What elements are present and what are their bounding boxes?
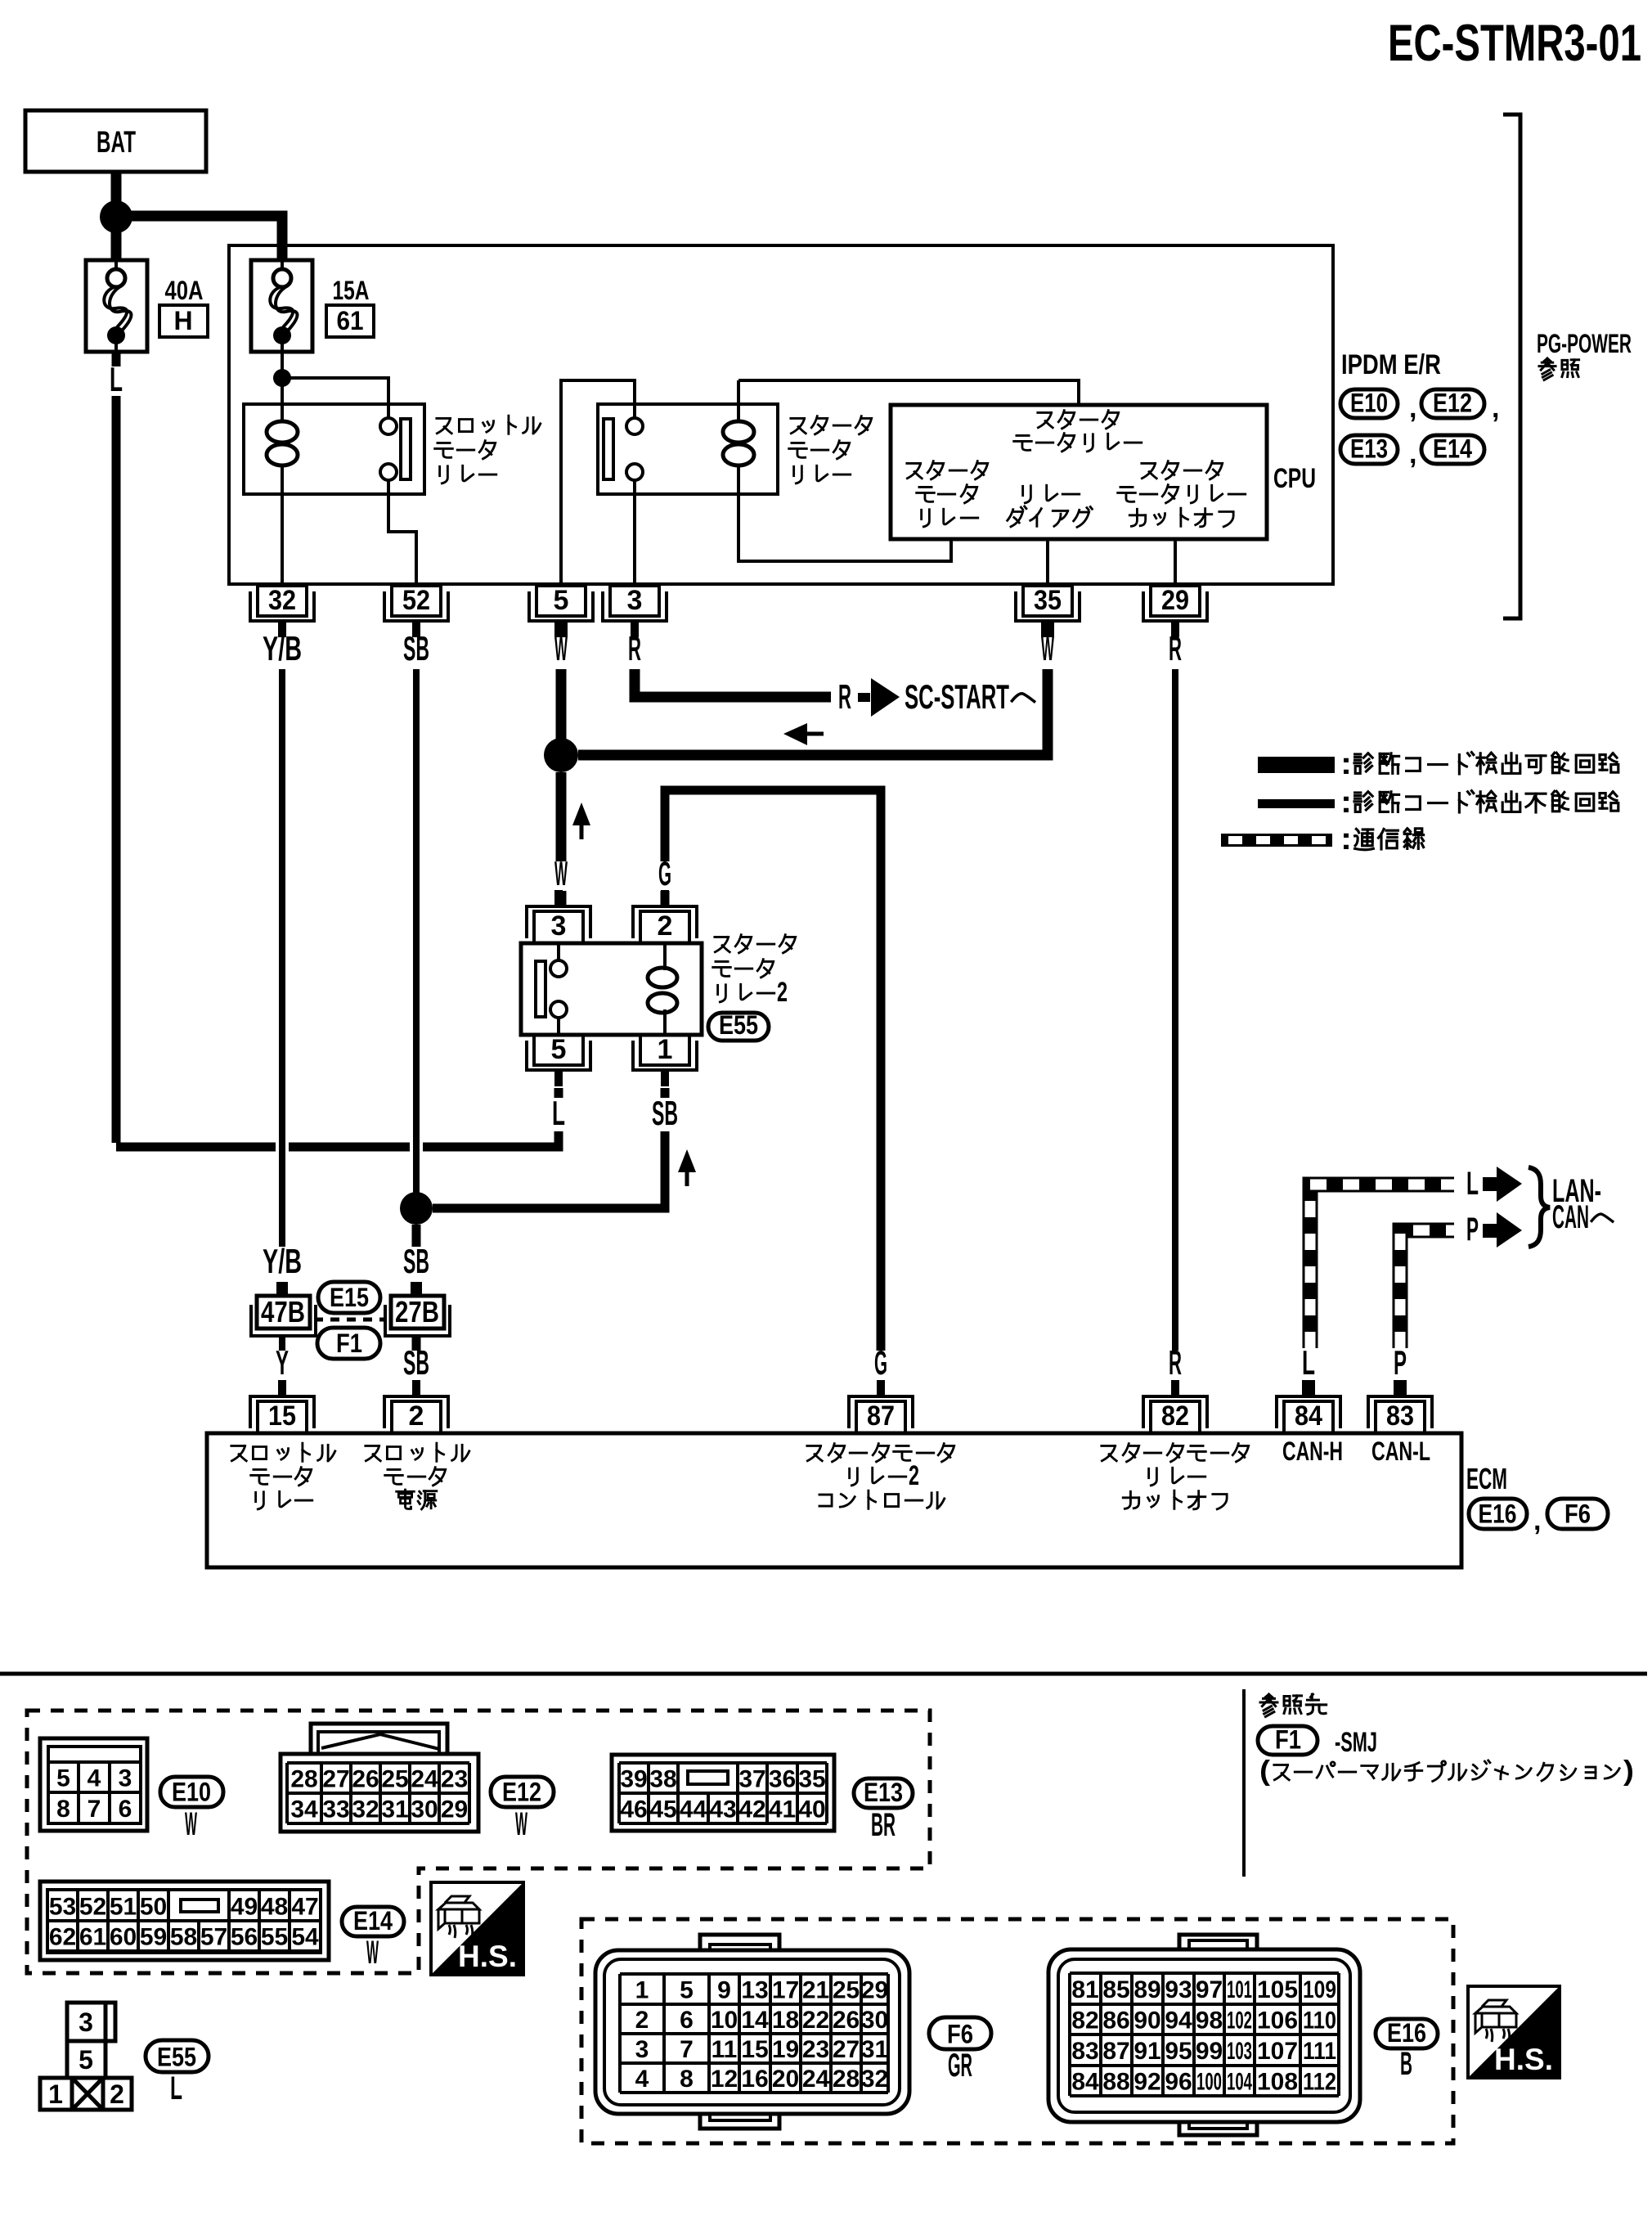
ECM label pin2 l3 — [397, 1490, 437, 1509]
separator line — [0, 1672, 1647, 1676]
svg-text:P: P — [1394, 1343, 1407, 1382]
svg-text:52: 52 — [402, 585, 430, 616]
wire E55 contact entry — [557, 943, 560, 960]
svg-text:33: 33 — [322, 1796, 349, 1823]
svg-text:8: 8 — [56, 1796, 70, 1823]
svg-text:53: 53 — [49, 1894, 76, 1921]
label P (LAN-CAN) — [1466, 1212, 1479, 1248]
legend text 2 — [1340, 785, 1618, 820]
svg-text:Y/B: Y/B — [263, 629, 302, 668]
ECM label pin2 l1 — [366, 1443, 469, 1461]
svg-text:GR: GR — [948, 2048, 972, 2084]
svg-text:Y/B: Y/B — [263, 1242, 302, 1280]
terminal 47B — [276, 1282, 288, 1297]
connector ref F1 note — [1258, 1726, 1318, 1755]
svg-text:55: 55 — [261, 1924, 288, 1951]
svg-text:21: 21 — [802, 1977, 829, 2004]
fuse 40A H box — [86, 260, 147, 352]
svg-text:44: 44 — [680, 1796, 707, 1823]
svg-text:29: 29 — [861, 1977, 888, 2004]
E14 color W — [366, 1935, 379, 1971]
wire SB below E55 pin1 a — [661, 1088, 670, 1098]
svg-text:6: 6 — [680, 2007, 694, 2034]
svg-text:W: W — [366, 1935, 379, 1971]
svg-text:32: 32 — [861, 2066, 888, 2093]
connector ref E10 — [1340, 389, 1398, 418]
ECM label pin82 l2 — [1149, 1468, 1205, 1486]
svg-text:28: 28 — [833, 2066, 860, 2093]
svg-text:,: , — [1492, 393, 1499, 424]
bracket PG-POWER — [1503, 115, 1520, 618]
pin 82 ECM — [1143, 1380, 1207, 1433]
wire E55 contact exit — [557, 1018, 560, 1033]
svg-text:42: 42 — [738, 1796, 765, 1823]
svg-text:E12: E12 — [502, 1778, 541, 1807]
svg-text:2: 2 — [658, 910, 673, 942]
junction fuse 15A output — [273, 369, 291, 387]
svg-text:34: 34 — [290, 1796, 318, 1823]
CPU label starter motor relay l1 — [1038, 411, 1119, 429]
pin 3 E55 — [527, 890, 590, 943]
svg-text:5: 5 — [551, 1034, 567, 1065]
wire L horizontal seg3 and rise to E55 pin5 — [423, 1131, 559, 1147]
svg-text:82: 82 — [1161, 1400, 1189, 1432]
ECM label pin87 l3 — [819, 1490, 945, 1508]
svg-text:4: 4 — [88, 1765, 101, 1792]
svg-text:2: 2 — [909, 1460, 919, 1491]
CPU col2 l2 — [1008, 506, 1093, 527]
E13 grid row2 — [619, 1793, 827, 1823]
svg-text::: : — [1340, 785, 1352, 820]
svg-text:111: 111 — [1303, 2038, 1336, 2065]
svg-text:109: 109 — [1303, 1976, 1336, 2003]
svg-text:F6: F6 — [947, 2020, 973, 2049]
label throttle motor relay line1 — [437, 416, 541, 434]
svg-text:,: , — [1533, 1505, 1541, 1536]
coil starter motor relay 2 — [648, 968, 677, 1013]
svg-text:62: 62 — [49, 1924, 76, 1951]
svg-text:1: 1 — [635, 1977, 649, 2004]
wire fuse 15A to relay coil — [281, 352, 284, 404]
ECM label pin15 l2 — [251, 1468, 312, 1486]
svg-text:,: , — [1409, 438, 1416, 470]
wire G E55 pin2 to ECM pin87 — [665, 790, 881, 1351]
svg-text:101: 101 — [1227, 1976, 1252, 2003]
svg-text:L: L — [170, 2070, 182, 2106]
wire label Y — [276, 1343, 289, 1382]
svg-text:38: 38 — [649, 1766, 676, 1793]
svg-text:105: 105 — [1257, 1976, 1298, 2003]
ECM label pin87 l2 — [850, 1460, 919, 1491]
svg-text:83: 83 — [1071, 2038, 1098, 2065]
wire label W (to E55) — [554, 854, 568, 892]
pin 2 ECM — [384, 1380, 448, 1433]
ECM label pin87 l1 — [807, 1444, 954, 1462]
E12 color W — [515, 1806, 527, 1842]
svg-text:99: 99 — [1196, 2038, 1223, 2065]
svg-text:H: H — [173, 306, 192, 335]
battery BAT — [25, 110, 206, 172]
svg-text:49: 49 — [231, 1894, 258, 1921]
wire junction to relay contact — [282, 378, 388, 404]
wire coil entry from CPU — [737, 380, 740, 423]
ECM label pin82 l1 — [1102, 1444, 1249, 1462]
svg-text:61: 61 — [337, 306, 364, 335]
connector F6 pinout — [595, 1935, 909, 2129]
CPU col1 l1 — [907, 461, 988, 479]
E16 color B — [1400, 2046, 1412, 2082]
svg-text:31: 31 — [381, 1796, 408, 1823]
svg-text:L: L — [1466, 1166, 1479, 1202]
svg-text:24: 24 — [411, 1766, 438, 1793]
svg-text:97: 97 — [1196, 1976, 1223, 2003]
IPDM E/R box — [229, 245, 1333, 584]
wire CAN-H checkered — [1310, 1185, 1454, 1348]
svg-text:35: 35 — [798, 1766, 825, 1793]
svg-text:W: W — [554, 854, 568, 892]
svg-text:103: 103 — [1227, 2038, 1252, 2065]
label starter motor relay line3 — [794, 465, 851, 483]
svg-text:E14: E14 — [353, 1906, 393, 1936]
label 参照 — [1539, 358, 1579, 380]
wire label L (E55 pin5) — [552, 1094, 565, 1132]
svg-text:E12: E12 — [1433, 389, 1472, 418]
H.S. mark 2 — [1468, 1986, 1560, 2078]
wire E55 coil exit — [663, 1009, 667, 1033]
svg-text:CAN-H: CAN-H — [1282, 1436, 1343, 1466]
wire SB junction to 27B — [412, 1225, 421, 1247]
svg-text::: : — [1340, 747, 1352, 781]
svg-text:60: 60 — [110, 1924, 137, 1951]
svg-text:32: 32 — [268, 585, 296, 616]
svg-text:15A: 15A — [333, 276, 370, 305]
label starter motor relay line1 — [791, 416, 872, 434]
ECM box — [207, 1433, 1461, 1567]
svg-text:L: L — [110, 360, 123, 398]
svg-text:): ) — [1623, 1756, 1634, 1787]
svg-text:96: 96 — [1165, 2069, 1192, 2096]
svg-text:2: 2 — [635, 2007, 649, 2034]
svg-text:84: 84 — [1071, 2069, 1099, 2096]
CPU col3 l1 — [1142, 461, 1223, 479]
label 参照先 — [1260, 1694, 1327, 1716]
arrow LAN-CAN P — [1483, 1224, 1497, 1238]
svg-text:46: 46 — [620, 1796, 647, 1823]
svg-text:3: 3 — [627, 585, 643, 616]
wire label L (above pin84) — [1302, 1343, 1315, 1382]
svg-text:85: 85 — [1102, 1976, 1129, 2003]
wire L horizontal seg2 — [289, 1143, 410, 1152]
connector ref E55 pill — [146, 2040, 209, 2072]
wire fuse H output stub — [112, 352, 121, 366]
svg-text:16: 16 — [741, 2066, 768, 2093]
connector ref E12 pill — [491, 1777, 554, 1807]
svg-text:CAN-L: CAN-L — [1371, 1436, 1430, 1466]
svg-text:59: 59 — [140, 1924, 167, 1951]
wire coil to CPU output — [738, 464, 951, 561]
E14 grid row2 — [47, 1921, 321, 1951]
arrow to SC-START — [858, 693, 870, 702]
svg-text:E16: E16 — [1387, 2018, 1426, 2048]
svg-text:54: 54 — [291, 1924, 319, 1951]
label LAN- — [1552, 1173, 1601, 1209]
connector ref E10 pill — [160, 1777, 223, 1807]
connector ref E15 — [318, 1282, 380, 1313]
wire R pin3 to SC-START — [635, 669, 831, 697]
svg-text:90: 90 — [1134, 2007, 1160, 2034]
svg-text:ECM: ECM — [1466, 1462, 1507, 1495]
svg-text:R: R — [1169, 1343, 1182, 1382]
svg-text:E16: E16 — [1479, 1499, 1517, 1529]
svg-text:24: 24 — [802, 2066, 830, 2093]
svg-text:1: 1 — [48, 2079, 63, 2109]
svg-text:100: 100 — [1196, 2069, 1222, 2096]
wire CPU to coil top — [738, 380, 1079, 405]
svg-text:E55: E55 — [157, 2043, 196, 2072]
svg-text:BR: BR — [871, 1807, 896, 1843]
svg-text:27: 27 — [833, 2036, 860, 2063]
svg-text:5: 5 — [554, 585, 569, 616]
wire label R (SC-START) — [838, 677, 851, 716]
svg-text:PG-POWER: PG-POWER — [1537, 329, 1632, 358]
svg-text:6: 6 — [119, 1796, 132, 1823]
svg-text:52: 52 — [79, 1894, 106, 1921]
wire coil exit — [281, 464, 284, 494]
contact starter motor relay — [604, 418, 643, 480]
wire contact to pin 52 — [388, 494, 416, 584]
svg-text:E15: E15 — [330, 1283, 369, 1312]
svg-text:25: 25 — [381, 1766, 408, 1793]
svg-text:2: 2 — [110, 2079, 124, 2109]
svg-text:11: 11 — [712, 2036, 738, 2063]
E10 color W — [185, 1806, 197, 1842]
connector E13 pinout — [612, 1755, 834, 1831]
relay throttle motor relay box — [244, 404, 424, 494]
ECM label pin82 l3 — [1123, 1490, 1227, 1509]
svg-text:B: B — [1400, 2046, 1412, 2082]
svg-text:F1: F1 — [336, 1329, 362, 1358]
svg-text:110: 110 — [1303, 2007, 1336, 2034]
relay starter motor relay box — [598, 404, 778, 494]
svg-text:17: 17 — [772, 1977, 799, 2004]
terminal 27B — [411, 1282, 422, 1297]
svg-text:EC-STMR3-01: EC-STMR3-01 — [1388, 15, 1641, 72]
svg-text:35: 35 — [1034, 585, 1062, 616]
ECM label pin2 l2 — [385, 1468, 446, 1486]
svg-text:4: 4 — [635, 2066, 649, 2093]
dashed connector split line — [314, 1318, 386, 1322]
pin 5 E55 — [527, 1034, 590, 1086]
CPU col2 l1 — [1023, 485, 1080, 503]
svg-text:51: 51 — [110, 1894, 137, 1921]
pin 83 ECM — [1368, 1380, 1432, 1433]
pin 1 E55 — [633, 1034, 697, 1086]
reference divider line — [1242, 1689, 1246, 1877]
pin 35 IPDM — [1016, 585, 1080, 637]
svg-text:82: 82 — [1071, 2007, 1098, 2034]
wire Y/B pin32 to 47B — [279, 669, 285, 1247]
dashed harness box F6/E16 — [581, 1919, 1453, 2143]
fuse label H — [159, 305, 208, 337]
svg-text:5: 5 — [680, 1977, 694, 2004]
svg-text:106: 106 — [1257, 2007, 1298, 2034]
pin 87 ECM — [849, 1380, 913, 1433]
svg-text:-SMJ: -SMJ — [1335, 1727, 1377, 1758]
wire label SB (above pin2) — [403, 1343, 429, 1382]
svg-text:30: 30 — [861, 2007, 888, 2034]
arrow up on SB wire — [678, 1149, 696, 1172]
svg-text:81: 81 — [1071, 1976, 1098, 2003]
svg-text:W: W — [185, 1806, 197, 1842]
svg-text:56: 56 — [231, 1924, 258, 1951]
wire contact to pin 3 — [633, 480, 636, 584]
wire label W (pin35) — [1041, 629, 1054, 668]
svg-text:29: 29 — [1161, 585, 1189, 616]
svg-text:107: 107 — [1257, 2038, 1298, 2065]
connector ref F6 (ECM) — [1547, 1499, 1608, 1529]
pin 15 ECM — [250, 1380, 314, 1433]
svg-text:39: 39 — [620, 1766, 647, 1793]
wire contact entry — [387, 404, 390, 418]
connector ref E14 pill — [342, 1907, 404, 1936]
CPU col1 l3 — [922, 509, 978, 527]
connector ref E13 pill — [854, 1778, 913, 1808]
svg-text:3: 3 — [119, 1765, 132, 1792]
E55 color L — [170, 2070, 182, 2106]
svg-text:E14: E14 — [1433, 434, 1472, 464]
wire Y 47B to ECM pin15 — [279, 1336, 285, 1351]
svg-text:F6: F6 — [1564, 1499, 1591, 1529]
wire label SB (above 27B) — [403, 1242, 429, 1280]
junction SB splice — [400, 1192, 433, 1225]
pin 84 ECM — [1277, 1380, 1340, 1433]
connector ref E12 — [1421, 389, 1484, 418]
svg-text:10: 10 — [711, 2007, 738, 2034]
contact starter motor relay 2 — [536, 960, 567, 1018]
svg-text:93: 93 — [1165, 1976, 1192, 2003]
svg-text:IPDM E/R: IPDM E/R — [1341, 349, 1441, 380]
coil throttle motor relay — [267, 421, 298, 465]
E16 grid — [1070, 1973, 1339, 2096]
svg-text:8: 8 — [680, 2066, 694, 2093]
label super multiple junction — [1259, 1756, 1634, 1787]
legend text 1 — [1340, 747, 1618, 781]
svg-text:R: R — [1169, 629, 1182, 668]
svg-text:5: 5 — [56, 1765, 70, 1792]
svg-text:E10: E10 — [172, 1778, 211, 1807]
wire label G (E55 pin2) — [658, 854, 671, 892]
svg-text:,: , — [1409, 393, 1416, 424]
wire label G (above pin87) — [874, 1343, 887, 1382]
pin 2 E55 — [633, 890, 697, 943]
wire R pin29 to pin82 — [1172, 669, 1178, 1351]
svg-text:7: 7 — [680, 2036, 694, 2063]
legend thin line = non-diagnosable circuit — [1258, 799, 1335, 808]
svg-text:47B: 47B — [261, 1295, 305, 1329]
svg-text:E13: E13 — [864, 1778, 903, 1807]
connector E16 pinout — [1048, 1935, 1360, 2135]
svg-text:102: 102 — [1227, 2007, 1252, 2034]
wire label R (pin3) — [628, 629, 641, 668]
svg-text:37: 37 — [738, 1766, 765, 1793]
fuse label 61 — [326, 305, 374, 337]
svg-text:26: 26 — [833, 2007, 860, 2034]
svg-text:23: 23 — [802, 2036, 829, 2063]
relay starter motor relay 2 (E55) box — [521, 943, 702, 1035]
svg-text:88: 88 — [1102, 2069, 1129, 2096]
svg-text:H.S.: H.S. — [1494, 2043, 1553, 2076]
connector E55 pinout — [40, 2003, 132, 2110]
wire W pin35 to junction — [578, 669, 1048, 755]
svg-text:92: 92 — [1134, 2069, 1160, 2096]
svg-text:112: 112 — [1303, 2069, 1336, 2096]
svg-text:7: 7 — [88, 1796, 101, 1823]
pin 29 IPDM — [1143, 585, 1207, 637]
label CANへ — [1552, 1199, 1613, 1235]
fuse 15A 61 box — [251, 260, 312, 352]
svg-text:87: 87 — [867, 1400, 895, 1432]
wire W pin5 down — [556, 669, 567, 740]
svg-text:86: 86 — [1102, 2007, 1129, 2034]
pin 3 IPDM — [603, 585, 667, 637]
CPU col3 l2 — [1118, 485, 1246, 503]
svg-text:W: W — [1041, 629, 1054, 668]
svg-text:61: 61 — [79, 1924, 106, 1951]
svg-text:1: 1 — [658, 1034, 673, 1065]
svg-text:R: R — [628, 629, 641, 668]
svg-text:45: 45 — [649, 1796, 676, 1823]
connector ref F6 pill — [929, 2017, 991, 2049]
svg-text:L: L — [552, 1094, 565, 1132]
legend thick line = diagnosable circuit — [1258, 757, 1335, 773]
wire W to E55 pin3 — [556, 891, 567, 906]
svg-text:E10: E10 — [1350, 389, 1388, 418]
svg-text:E13: E13 — [1350, 434, 1388, 464]
E12 grid — [287, 1763, 469, 1823]
svg-text:P: P — [1466, 1212, 1479, 1248]
junction W splice — [544, 738, 578, 772]
svg-text:40A: 40A — [165, 276, 204, 305]
wire L below E55 pin5 stub — [554, 1088, 563, 1098]
svg-text:28: 28 — [290, 1766, 317, 1793]
wire BAT junction to fuse 15A — [116, 216, 282, 260]
svg-text:27B: 27B — [395, 1295, 439, 1329]
svg-text:29: 29 — [441, 1796, 468, 1823]
svg-text:15: 15 — [741, 2036, 768, 2063]
pin 52 IPDM — [384, 585, 448, 637]
svg-text:2: 2 — [409, 1400, 424, 1432]
brace LAN-CAN — [1529, 1167, 1550, 1247]
svg-text:3: 3 — [635, 2036, 649, 2063]
pin 32 IPDM — [250, 585, 314, 637]
svg-text:89: 89 — [1134, 1976, 1160, 2003]
label SC-STARTへ — [905, 677, 1035, 716]
label starter motor relay line2 — [789, 441, 850, 459]
dashed harness box E10/E12/E13/E14 — [27, 1711, 930, 1973]
label starter motor relay 2 l3 — [718, 977, 788, 1008]
svg-text:13: 13 — [741, 1977, 768, 2004]
E10 grid — [48, 1762, 141, 1823]
svg-text:W: W — [554, 629, 568, 668]
connector ref E55 — [708, 1013, 769, 1041]
svg-text:41: 41 — [769, 1796, 796, 1823]
wire label Y/B — [263, 629, 302, 668]
label starter motor relay 2 l2 — [713, 960, 774, 978]
label L (LAN-CAN) — [1466, 1166, 1479, 1202]
svg-text:87: 87 — [1102, 2038, 1129, 2065]
svg-text:20: 20 — [772, 2066, 799, 2093]
svg-text::: : — [1340, 822, 1352, 856]
